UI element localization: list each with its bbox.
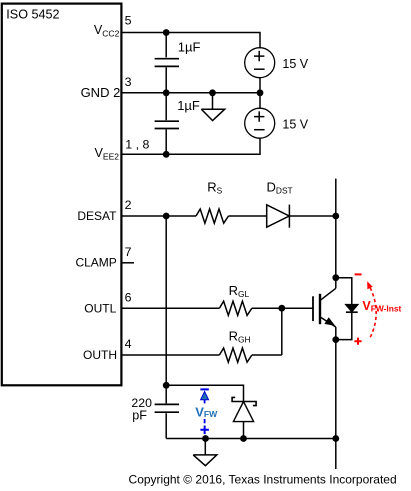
resistor RGL [219,301,251,315]
capacitor C2 lower lead [165,130,167,155]
svg-text:1µF: 1µF [177,98,200,113]
Q1 emitter arrow [324,317,335,326]
svg-text:1 , 8: 1 , 8 [125,137,149,151]
capacitor C1 lower lead [165,67,167,93]
wire collector vertical [335,179,337,289]
node junction rail/ground [202,435,209,442]
wire VEE2 rail to V2 minus [121,138,260,155]
svg-text:CLAMP: CLAMP [75,256,116,270]
svg-text:15 V: 15 V [282,57,308,71]
svg-text:VFW-Inst: VFW-Inst [362,299,401,314]
node junction DESAT/collector [332,213,339,220]
schottky diode D3 cathode bar with hooks [232,397,256,405]
Q1 collector diagonal [320,288,336,301]
diode DDST cathode bar [288,205,290,228]
freewheel diode D2 triangle [346,305,358,312]
freewheel diode D2 bottom branch [336,312,352,339]
DESAT bus vertical wire [165,216,167,385]
capacitor C2 plates [155,121,179,128]
node junction collector/diode branch [332,274,339,281]
node junction DESAT/bus [163,213,170,220]
annotation plus (VFW-Inst) [354,338,361,345]
annotation minus (VFW-Inst) [355,273,362,275]
svg-text:5: 5 [125,14,132,28]
V2 plus sign [254,111,264,121]
svg-text:ISO 5452: ISO 5452 [6,8,59,22]
svg-text:RS: RS [207,180,222,196]
svg-text:OUTH: OUTH [83,348,117,362]
annotation arrow VFW [201,392,209,400]
wire bottom rail [166,438,336,440]
node junction GND2/C1 [163,89,170,96]
svg-text:OUTL: OUTL [84,301,116,315]
wire CLAMP stub [121,262,134,264]
annotation dash VFW [204,419,206,423]
V2 top stub [259,93,261,109]
freewheel diode D2 top branch [336,278,352,305]
svg-text:GND 2: GND 2 [81,85,121,100]
wire emitter vertical [335,327,337,469]
Q1 body bar [319,294,321,324]
wire OUTH to RGH [121,354,220,356]
wire VCC2 pin 5 to V1 plus [121,33,260,49]
wire riser RGH to gate node [281,308,283,355]
svg-text:RGH: RGH [229,329,251,345]
svg-text:pF: pF [132,408,147,422]
svg-text:3: 3 [125,75,132,89]
node junction gate/RGH riser [278,305,285,312]
resistor RS [196,209,228,223]
capacitor C3 plates [155,404,179,412]
svg-text:RGL: RGL [229,283,250,299]
capacitor C1 1uF upper lead [165,33,167,58]
wire RGH to riser [252,354,282,356]
node junction VCC2/C1 [163,29,170,36]
node junction GND2/V1-V2 [257,89,264,96]
freewheel diode D2 cathode bar [346,311,358,313]
capacitor C3 220pF top lead [165,385,167,403]
svg-text:1µF: 1µF [178,40,201,55]
node junction rail/emitter [332,435,339,442]
svg-text:VFW: VFW [195,404,218,419]
diode DDST triangle [267,205,290,227]
annotation dashed arc VFW-Inst [368,284,376,337]
V1 bottom stub [259,77,261,93]
IC U1 ISO 5452 box [2,4,122,386]
capacitor C3 bottom lead [165,413,167,438]
annotation arrow stem [204,400,206,404]
ground symbol (bottom rail) [193,439,217,466]
annotation arc arrowhead [367,281,373,289]
svg-text:6: 6 [125,290,132,304]
resistor RGH [219,348,251,362]
annotation plus (VFW) [200,426,209,435]
transistor Q1 IGBT gate bar [312,296,314,321]
node junction emitter/diode branch [332,336,339,343]
svg-text:DESAT: DESAT [77,209,117,223]
wire 220pF loop top rail [166,385,243,401]
voltage source V2 15V circle [245,108,275,138]
svg-text:7: 7 [125,245,132,259]
Q1 emitter diagonal [320,317,336,327]
wire RGL to gate [252,307,314,309]
wire DESAT pin to RS [121,215,196,217]
capacitor C1 plates [155,59,179,67]
svg-text:2: 2 [125,198,132,212]
wire OUTL to RGL [121,307,220,309]
wire GND2 rail [121,92,260,94]
schottky diode D3 anode lead [243,422,245,439]
annotation minus (VFW) [200,388,208,390]
node junction VEE2/C2 [163,151,170,158]
svg-text:DDST: DDST [267,180,293,196]
node junction rail/schottky [240,435,247,442]
V1 minus sign [254,68,265,70]
svg-text:4: 4 [125,337,132,351]
svg-text:Copyright © 2016, Texas Instru: Copyright © 2016, Texas Instruments Inco… [129,473,397,487]
wire RS to DDST [229,215,267,217]
svg-text:15 V: 15 V [282,117,308,131]
capacitor C2 1uF upper lead [165,93,167,120]
schottky diode D3 triangle [233,402,253,422]
node junction bus/220pF rail [163,382,170,389]
V2 minus sign [254,129,265,131]
V1 plus sign [254,51,264,61]
wire DDST to collector [289,215,335,217]
node junction GND2/ground [209,89,216,96]
voltage source V1 15V circle [245,48,275,78]
ground symbol (GND2 rail) [201,93,224,121]
